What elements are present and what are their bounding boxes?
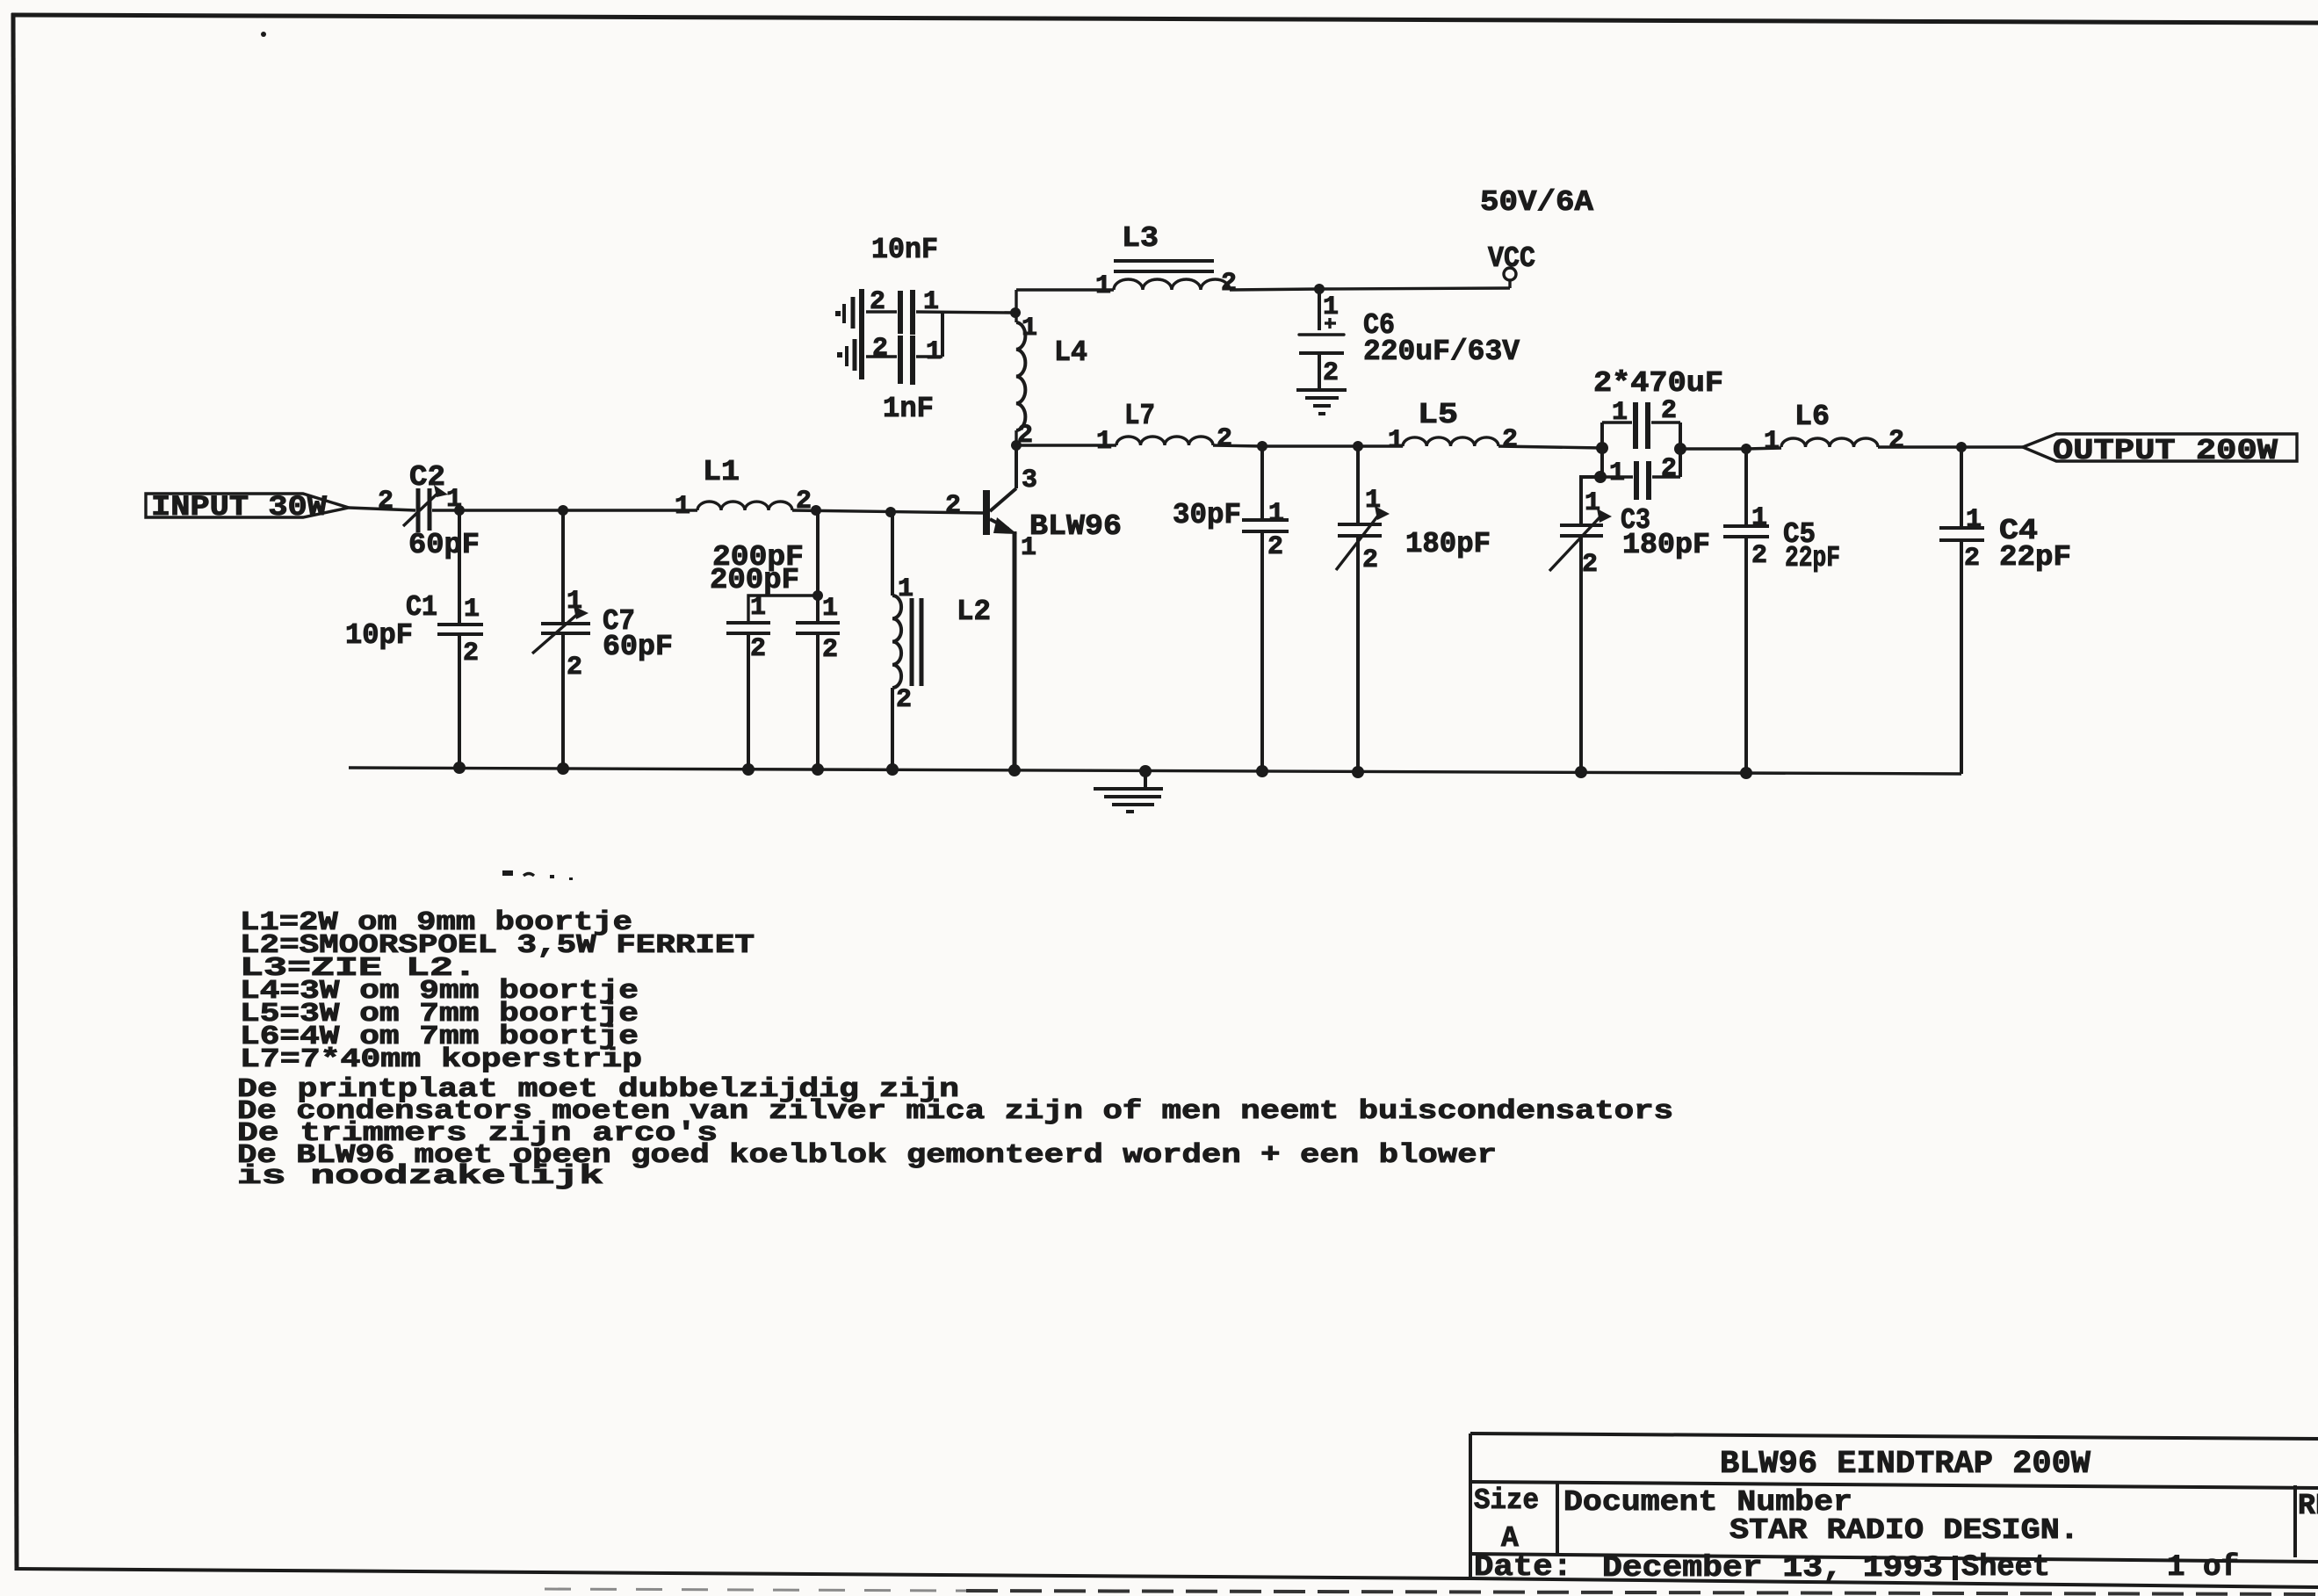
svg-text:180pF: 180pF — [1622, 529, 1710, 561]
svg-text:1: 1 — [675, 492, 690, 522]
junction 470uF right — [1674, 443, 1686, 455]
svg-text:1nF: 1nF — [883, 393, 934, 425]
svg-text:OUTPUT 200W: OUTPUT 200W — [2053, 435, 2278, 467]
junction emitter at rail — [1008, 764, 1021, 776]
svg-text:200pF: 200pF — [710, 564, 799, 596]
svg-text:2: 2 — [1221, 269, 1237, 299]
svg-text:2: 2 — [896, 685, 912, 715]
wire 470uF right stub — [1679, 422, 1682, 477]
svg-text:2: 2 — [1888, 426, 1904, 456]
page border top — [11, 15, 2318, 23]
svg-text:2: 2 — [870, 287, 885, 317]
svg-text:2: 2 — [378, 487, 394, 516]
speck dot top — [261, 32, 266, 37]
inductor L4 coil — [1016, 322, 1025, 430]
inductor L2 coil — [892, 596, 901, 688]
capacitor 1nF (bottom feedthrough) — [837, 336, 913, 385]
svg-text:10pF: 10pF — [345, 619, 413, 652]
svg-text:1: 1 — [1764, 427, 1780, 457]
junction collector output row — [1011, 440, 1022, 451]
wire 10nF to collector node — [916, 312, 1015, 313]
wire C7 drop upper — [561, 510, 565, 624]
svg-text:1: 1 — [750, 593, 766, 623]
svg-text:2: 2 — [463, 639, 479, 668]
svg-text:1: 1 — [822, 594, 838, 624]
svg-text:REV: REV — [2298, 1490, 2318, 1522]
wire down from L1 pin2 junction to 200pF pair — [816, 510, 820, 596]
capacitor C2 (trimmer 60pF) — [403, 485, 448, 532]
wire 200pF right to ground rail — [816, 633, 820, 769]
svg-text:1: 1 — [1612, 398, 1628, 428]
junction at C4 top — [1956, 442, 1967, 452]
svg-text:22pF: 22pF — [1785, 542, 1840, 574]
svg-text:2: 2 — [822, 635, 838, 665]
svg-text:1: 1 — [1268, 499, 1284, 529]
svg-text:2: 2 — [1751, 541, 1767, 571]
svg-text:2: 2 — [750, 634, 766, 664]
svg-text:2: 2 — [567, 653, 582, 682]
inductor L5 coil — [1403, 437, 1498, 446]
wire L2 bottom to ground rail — [891, 688, 894, 769]
junction at L1 pin 2 — [811, 505, 821, 516]
wire L3 to C6 junction — [1230, 289, 1319, 290]
wire L1 to BLW96 base — [792, 510, 983, 513]
svg-text:180pF: 180pF — [1405, 528, 1491, 560]
notes text block: coil winding list — [240, 907, 755, 1075]
wire L5 to 470uF junction — [1498, 446, 1602, 448]
svg-text:2: 2 — [1323, 358, 1339, 388]
svg-text:Sheet: Sheet — [1961, 1551, 2050, 1585]
wire L6 to C4 junction — [1878, 445, 1961, 448]
transistor Q1 BLW96 — [983, 488, 1017, 535]
junction at 30pF top — [1257, 441, 1267, 451]
svg-text:2: 2 — [1217, 424, 1232, 454]
wire 1nF to link — [916, 355, 942, 357]
page bottom edge dashed line — [545, 1589, 966, 1591]
svg-text:1: 1 — [926, 337, 942, 367]
svg-text:BLW96 EINDTRAP 200W: BLW96 EINDTRAP 200W — [1720, 1446, 2091, 1482]
junction 470uF left — [1596, 442, 1608, 454]
wire 470uF link down-left to C3 — [1581, 477, 1600, 525]
junction 30pF at rail — [1256, 765, 1268, 777]
ground symbol below C6 — [1296, 390, 1347, 414]
wire C6 bottom to ground — [1318, 353, 1321, 390]
svg-text:L7: L7 — [1124, 400, 1155, 432]
svg-text:1: 1 — [1966, 505, 1982, 535]
junction L2 at rail — [886, 763, 899, 776]
svg-text:1: 1 — [1585, 488, 1600, 518]
svg-text:BLW96: BLW96 — [1029, 510, 1122, 543]
svg-text:30pF: 30pF — [1173, 499, 1241, 531]
svg-text:1: 1 — [1095, 271, 1111, 301]
svg-text:December 13, 1993: December 13, 1993 — [1602, 1552, 1943, 1585]
wire collector vertical — [1015, 445, 1018, 488]
junction at 180pF top — [1353, 441, 1363, 451]
node INPUT: input flag INPUT 30W — [146, 491, 349, 524]
junction ground symbol at rail — [1139, 765, 1152, 777]
svg-text:L6: L6 — [1794, 401, 1830, 433]
capacitor C5 — [1723, 526, 1769, 537]
capacitor 200pF left — [726, 623, 770, 633]
wire to left 200pF capacitor — [748, 596, 818, 623]
wire C4 to ground rail corner — [1960, 540, 1963, 774]
wire C5 to ground rail — [1744, 537, 1748, 773]
wire C3 to ground rail — [1579, 536, 1583, 772]
wire top rail left segment — [1016, 288, 1114, 291]
wire 30pF to ground rail — [1260, 531, 1264, 771]
svg-text:3: 3 — [1022, 466, 1037, 495]
capacitor 180pF trimmer — [1336, 506, 1390, 570]
junction at C1 top — [454, 505, 465, 516]
svg-text:Size: Size — [1474, 1484, 1539, 1517]
svg-text:10nF: 10nF — [871, 234, 938, 266]
inductor L2 core bars — [912, 598, 921, 686]
power node VCC — [1504, 268, 1516, 288]
wire link 1nF up to 10nF wire — [941, 312, 944, 357]
inductor L3 coil — [1114, 279, 1230, 290]
junction C3 link — [1594, 471, 1607, 483]
junction of 200pF pair — [812, 590, 823, 601]
capacitor C7 (trimmer 60pF) — [532, 606, 590, 654]
svg-text:L5: L5 — [1418, 399, 1458, 431]
junction at C6 top — [1314, 284, 1325, 294]
wire 30pF junction to 180pF junction — [1262, 444, 1358, 447]
wire C5 junction to L6 — [1746, 448, 1781, 449]
page border left — [13, 13, 17, 1571]
junction collector top node — [1010, 307, 1021, 318]
svg-text:L2: L2 — [957, 596, 991, 628]
capacitor C6 electrolytic 220uF/63V — [1299, 335, 1344, 353]
junction 200pF left at rail — [742, 763, 755, 776]
svg-text:1: 1 — [1609, 459, 1625, 488]
page border bottom — [16, 1569, 1470, 1578]
inductor L3 core bars — [1114, 261, 1214, 271]
svg-text:2: 2 — [1362, 545, 1378, 575]
svg-text:L4: L4 — [1054, 336, 1087, 369]
wire 30pF drop upper — [1260, 446, 1264, 520]
svg-text:2: 2 — [1964, 544, 1980, 574]
title block frame — [1470, 1434, 2318, 1587]
svg-text:2: 2 — [1267, 532, 1283, 562]
inductor L1 — [697, 502, 792, 510]
svg-text:1: 1 — [1096, 427, 1112, 457]
wire 180pF drop upper — [1356, 446, 1360, 524]
wire C1 drop lower to ground rail — [458, 634, 461, 768]
svg-text:L1: L1 — [703, 456, 740, 488]
wire collector node to top rail — [1015, 290, 1017, 313]
junction 180pF at rail — [1352, 766, 1364, 778]
capacitor 470uF top — [1602, 402, 1680, 449]
capacitor C6 polarity plus mark — [1325, 318, 1336, 329]
wire input flag to C2 — [349, 508, 415, 510]
svg-text:INPUT 30W: INPUT 30W — [151, 491, 328, 524]
svg-text:2: 2 — [1502, 425, 1518, 455]
wire C6 junction to VCC — [1319, 288, 1510, 289]
wire C1 drop upper — [458, 510, 461, 625]
wire collector node to L4 — [1015, 313, 1017, 322]
ground symbol on rail — [1094, 771, 1163, 812]
svg-text:2: 2 — [945, 491, 961, 521]
svg-text:2: 2 — [1661, 454, 1677, 484]
svg-text:is noodzakelijk: is noodzakelijk — [237, 1161, 603, 1192]
wire C7 drop lower to ground rail — [561, 633, 565, 769]
wire C2 to L1 — [432, 509, 697, 511]
inductor L6 coil — [1781, 438, 1878, 447]
svg-text:22pF: 22pF — [1999, 541, 2071, 574]
capacitor 470uF bottom — [1600, 461, 1680, 500]
wire 470uF left stub — [1600, 422, 1604, 477]
svg-text:L3: L3 — [1122, 222, 1159, 255]
wire 200pF right upper — [816, 596, 820, 623]
wire 470uF right junction to C5 junction — [1680, 447, 1746, 450]
wire 180pF junction to L5 — [1358, 444, 1403, 447]
wire C4 drop upper — [1960, 447, 1963, 528]
wire L2 top — [891, 512, 894, 596]
svg-text:1: 1 — [1388, 426, 1404, 456]
wire 200pF left to ground rail — [747, 633, 750, 769]
svg-text:1: 1 — [1365, 486, 1381, 516]
wire 180pF to ground rail — [1356, 536, 1360, 772]
wire C6 top — [1318, 289, 1321, 330]
svg-text:STAR RADIO DESIGN.: STAR RADIO DESIGN. — [1729, 1514, 2079, 1547]
svg-text:1: 1 — [464, 595, 480, 625]
svg-text:1: 1 — [1751, 503, 1767, 533]
svg-text:2: 2 — [1661, 396, 1677, 426]
svg-text:Date:: Date: — [1474, 1551, 1572, 1585]
svg-text:1: 1 — [567, 587, 582, 617]
wire C5 drop upper — [1744, 449, 1748, 526]
speck marks mid page — [502, 870, 573, 880]
ground rail wire — [349, 768, 1961, 774]
svg-text:A: A — [1501, 1522, 1519, 1555]
capacitor 10nF (top feedthrough) — [835, 289, 913, 379]
junction at C5 top — [1741, 444, 1751, 454]
junction at C7 top — [558, 505, 568, 516]
junction C1 at rail — [453, 762, 466, 774]
wire collector row to L7 — [1016, 444, 1116, 446]
capacitor 200pF right — [796, 623, 840, 633]
svg-text:C2: C2 — [409, 461, 445, 494]
svg-text:50V/6A: 50V/6A — [1480, 186, 1593, 219]
svg-text:L7=7*40mm koperstrip: L7=7*40mm koperstrip — [240, 1044, 642, 1075]
wire L7 to 30pF junction — [1213, 445, 1262, 446]
wire L4 bottom to collector row — [1015, 430, 1017, 445]
svg-text:1: 1 — [1323, 292, 1339, 322]
capacitor C1 10pF — [437, 625, 483, 634]
svg-text:2: 2 — [872, 334, 888, 364]
junction 200pF right at rail — [812, 763, 824, 776]
junction C3 at rail — [1575, 766, 1587, 778]
notes text block: build remarks — [237, 1074, 1673, 1192]
svg-text:220uF/63V: 220uF/63V — [1363, 336, 1520, 368]
svg-text:1 of: 1 of — [2167, 1551, 2239, 1585]
svg-text:2: 2 — [1582, 550, 1598, 580]
capacitor C3 trimmer — [1549, 509, 1612, 571]
junction C5 at rail — [1740, 767, 1752, 779]
svg-text:VCC: VCC — [1488, 242, 1535, 275]
wire C4 junction to output flag — [1961, 445, 2023, 448]
inductor L7 coil — [1116, 437, 1213, 445]
capacitor C4 — [1939, 528, 1984, 540]
svg-text:60pF: 60pF — [408, 529, 480, 561]
svg-text:60pF: 60pF — [603, 631, 673, 663]
junction at L2 top — [885, 507, 896, 517]
node OUTPUT: output flag OUTPUT 200W — [2023, 434, 2297, 467]
junction C7 at rail — [557, 762, 569, 775]
capacitor 30pF — [1242, 520, 1289, 531]
svg-text:2*470uF: 2*470uF — [1593, 367, 1723, 400]
wire emitter vertical to ground rail — [1013, 531, 1017, 770]
